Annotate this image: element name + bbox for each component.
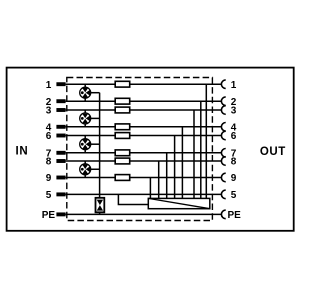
wire row 3: [66, 109, 222, 111]
drop wire row 7 to bar: [166, 153, 168, 199]
svg-text:1: 1: [231, 80, 237, 91]
pin stub IN 1: [56, 82, 65, 86]
vertical lamp bus wire to arrester: [99, 93, 101, 199]
resistor row 4: [115, 124, 130, 130]
gas discharge arrester F1: [96, 198, 105, 213]
outer enclosure box: [7, 68, 294, 231]
lamp L3 tap wire to bus: [91, 143, 100, 145]
lamp L4 tap wire to bus: [91, 168, 100, 170]
svg-text:IN: IN: [16, 145, 29, 157]
resistor row 3: [115, 107, 130, 113]
drop wire row 4 to bar: [181, 127, 183, 199]
pin stub IN 4: [56, 125, 65, 129]
drop wire row 1 to bar: [205, 84, 207, 198]
socket arc OUT 5: [221, 190, 225, 199]
socket arc OUT 6: [221, 131, 225, 140]
drop wire row 9 to bar: [149, 178, 151, 199]
svg-text:5: 5: [231, 190, 237, 201]
pin stub IN 6: [56, 134, 65, 138]
wire row 6: [66, 135, 222, 137]
pin stub IN 3: [56, 108, 65, 112]
pin stub IN 5: [56, 192, 65, 196]
svg-text:5: 5: [46, 190, 52, 201]
svg-text:PE: PE: [42, 210, 56, 221]
socket arc OUT 1: [221, 80, 225, 89]
svg-text:3: 3: [231, 106, 237, 117]
svg-text:3: 3: [46, 106, 52, 117]
drop wire row 3 to bar: [193, 110, 195, 198]
resistor row 9: [115, 175, 130, 181]
wire row PE: [66, 213, 222, 215]
resistor row 2: [115, 98, 130, 104]
lamp L1 between rows 1-2: [80, 84, 91, 101]
dashed device outline: [67, 78, 213, 221]
wire row 1: [66, 83, 222, 85]
resistor row 8: [115, 158, 130, 164]
wire row 4: [66, 126, 222, 128]
pin stub IN 2: [56, 99, 65, 103]
drop wire row 6 to bar: [174, 136, 176, 199]
socket arc OUT 4: [221, 122, 225, 131]
lamp L1 tap wire to bus: [91, 92, 100, 94]
row 5 branch wire to protection bar: [118, 194, 148, 204]
wire row 5: [66, 193, 222, 195]
svg-text:6: 6: [231, 131, 237, 142]
drop wire row 2 to bar: [200, 101, 202, 198]
wire row 2: [66, 100, 222, 102]
wire row 9: [66, 177, 222, 179]
svg-text:OUT: OUT: [260, 146, 286, 158]
socket arc OUT 3: [221, 106, 225, 115]
wire row 7: [66, 152, 222, 154]
arrester to PE wire: [99, 212, 101, 214]
svg-text:9: 9: [231, 173, 237, 184]
resistor row 6: [115, 133, 130, 139]
svg-text:6: 6: [46, 131, 52, 142]
socket arc OUT 9: [221, 173, 225, 182]
svg-text:9: 9: [46, 173, 52, 184]
socket arc OUT 7: [221, 149, 225, 158]
drop wire row 8 to bar: [158, 161, 160, 198]
pin stub IN 9: [56, 176, 65, 180]
svg-text:PE: PE: [228, 210, 242, 221]
pin stub IN 8: [56, 159, 65, 163]
lamp L4 between rows 8-9: [80, 161, 91, 178]
svg-text:1: 1: [46, 80, 52, 91]
socket arc OUT 2: [221, 97, 225, 106]
svg-text:8: 8: [46, 157, 52, 168]
lamp L2 between rows 3-4: [80, 110, 91, 127]
lamp L2 tap wire to bus: [91, 117, 100, 119]
pin stub IN 7: [56, 151, 65, 155]
resistor row 7: [115, 150, 130, 156]
lamp L3 between rows 6-7: [80, 136, 91, 153]
wire row 8: [66, 160, 222, 162]
resistor row 1: [115, 81, 130, 87]
protection bar with diagonal: [148, 198, 210, 208]
socket arc OUT PE: [221, 210, 225, 219]
pin stub IN PE: [56, 212, 65, 216]
svg-text:8: 8: [231, 157, 237, 168]
socket arc OUT 8: [221, 157, 225, 166]
